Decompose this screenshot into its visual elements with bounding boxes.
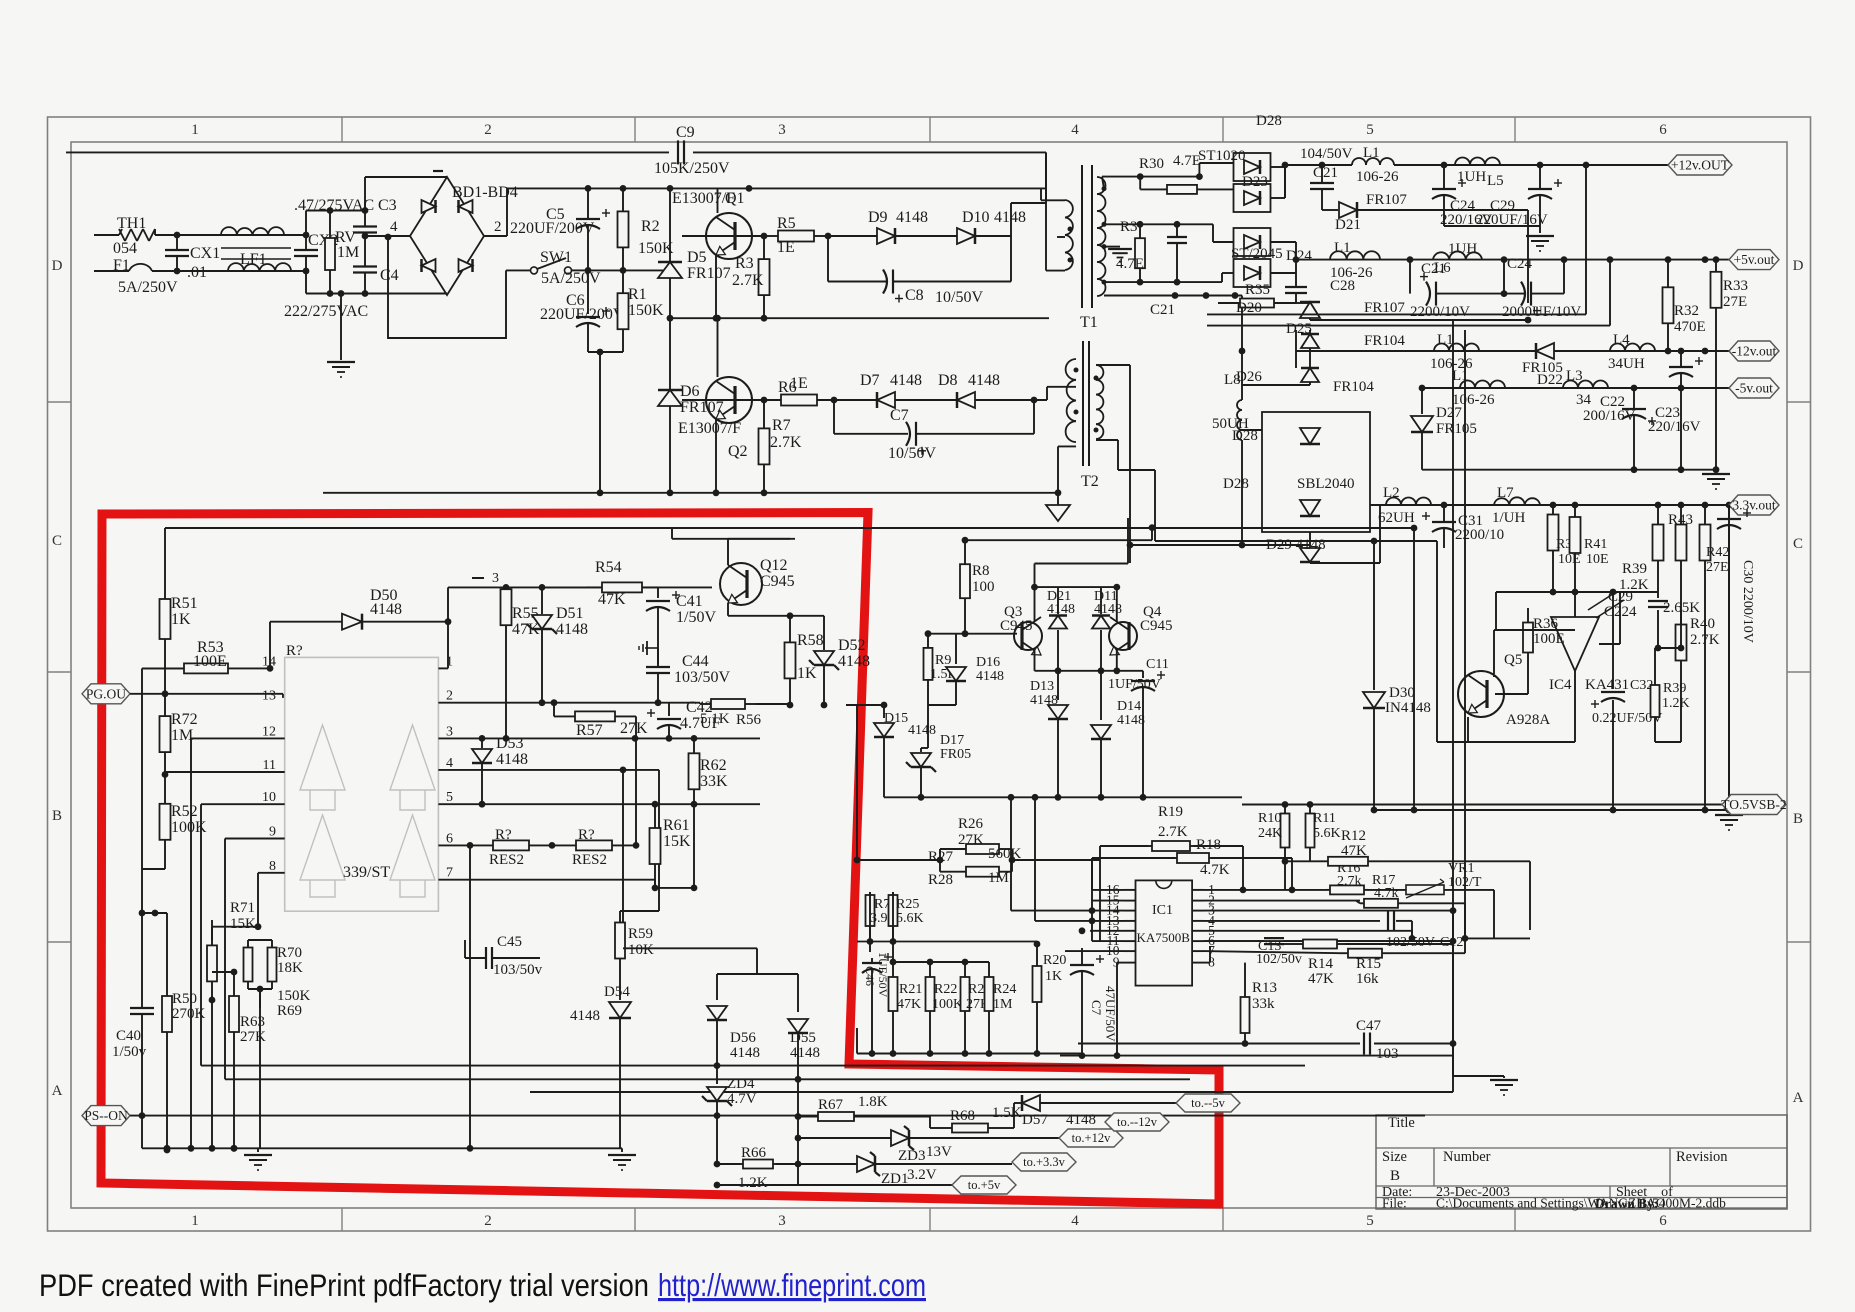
ic IC4 KA431 [1549, 589, 1629, 742]
svg-text:4148: 4148 [1030, 693, 1058, 708]
transistor Q1 [672, 188, 752, 318]
capacitor C42 [647, 699, 721, 738]
svg-text:D25: D25 [1286, 321, 1312, 337]
svg-text:4148: 4148 [370, 601, 402, 618]
svg-text:L3: L3 [1566, 368, 1583, 384]
svg-text:Q2: Q2 [728, 443, 748, 460]
resistor R11 5.6K [1306, 801, 1341, 861]
wire pin7 row [438, 804, 697, 891]
wire T1 sec tap B [1104, 221, 1233, 242]
capacitor C44 [646, 648, 730, 706]
wire sec feed lines [1207, 165, 1610, 326]
svg-text:R?: R? [286, 643, 303, 659]
diode D11 4148 [1092, 589, 1122, 671]
inductor L1d [1452, 368, 1505, 408]
wire Q2 base [682, 397, 767, 404]
svg-text:3.2V: 3.2V [907, 1167, 937, 1183]
diode D27 FR105 [1411, 388, 1477, 470]
svg-text:R3: R3 [735, 255, 754, 272]
diode D14 4148 [1091, 671, 1145, 798]
transistor Q2 [678, 318, 752, 496]
svg-text:C8: C8 [905, 287, 924, 304]
svg-text:222/275VAC: 222/275VAC [284, 303, 368, 320]
svg-text:C7: C7 [890, 407, 909, 424]
svg-text:R50: R50 [172, 991, 197, 1007]
flag to.+3.3v [1012, 1153, 1076, 1171]
resistor R51 1K [160, 528, 198, 694]
diode D25 FR104 [1239, 321, 1406, 354]
resistor R10 24K [1258, 801, 1290, 890]
capacitor C24b [1501, 256, 1582, 320]
svg-text:A928A: A928A [1506, 712, 1550, 728]
svg-text:100K: 100K [932, 997, 963, 1012]
wire bridge node2 [484, 188, 507, 236]
svg-text:1UH: 1UH [1448, 241, 1477, 257]
resistor R31 4.7E [1116, 219, 1145, 282]
svg-text:R9: R9 [935, 653, 951, 668]
rectifier SBL2040 [1223, 412, 1370, 532]
transistor Q5 A928A [1458, 652, 1550, 728]
title block [1376, 1115, 1787, 1211]
resistor R61 15K [650, 804, 692, 891]
resistor R7 [759, 400, 803, 496]
capacitor C6 [540, 270, 625, 355]
svg-text:R12: R12 [1341, 828, 1366, 844]
wire mid rail [588, 269, 671, 271]
svg-text:SW1: SW1 [540, 249, 572, 266]
wire AC line bottom [94, 268, 306, 275]
ic IC1 KA7500B [1106, 880, 1215, 985]
capacitor C3 [353, 211, 377, 236]
svg-text:Drawn By:: Drawn By: [1595, 1196, 1658, 1211]
svg-text:2.7k: 2.7k [1337, 874, 1362, 889]
wire 33 gnd rail2 [1371, 807, 1620, 814]
capacitor C23 [1648, 351, 1703, 473]
inductor L5 [1455, 158, 1504, 189]
resistor R24 1M [985, 962, 1017, 1054]
wire pin4 row [438, 767, 659, 941]
svg-text:47K: 47K [1341, 843, 1367, 859]
svg-text:R22: R22 [934, 982, 957, 997]
svg-text:1.2K: 1.2K [1662, 696, 1690, 711]
svg-text:D28: D28 [1223, 476, 1249, 492]
svg-text:62UH: 62UH [1378, 510, 1415, 526]
wire -5 rail [1419, 385, 1729, 392]
svg-text:C40: C40 [116, 1028, 141, 1044]
wire r2x bottom [857, 1028, 1082, 1057]
svg-text:1M: 1M [171, 727, 193, 744]
diode D15 4148 [874, 705, 936, 797]
svg-text:2: 2 [484, 122, 492, 138]
resistor R59 10K [615, 911, 659, 1000]
diode D21b 4148 [1047, 589, 1075, 671]
diode D9 [868, 209, 928, 244]
svg-text:R56: R56 [736, 712, 762, 728]
svg-text:Title: Title [1388, 1115, 1415, 1131]
switch SW1 [506, 249, 601, 287]
svg-text:R25: R25 [896, 897, 919, 912]
resistor R27 560K [928, 844, 1022, 872]
svg-text:D55: D55 [790, 1030, 816, 1046]
svg-text:1.2K: 1.2K [738, 1175, 768, 1191]
svg-text:4148: 4148 [994, 209, 1026, 226]
resistor R15b 16k [1204, 949, 1465, 987]
svg-text:C945: C945 [1000, 618, 1033, 634]
wire pin6 drop [469, 845, 471, 1148]
svg-text:4148: 4148 [1094, 602, 1122, 617]
svg-text:B: B [1793, 811, 1803, 827]
svg-text:R41: R41 [1584, 537, 1607, 552]
resistor R71 15K [207, 900, 258, 1003]
wire ps-on row [82, 1106, 1425, 1126]
svg-text:D: D [52, 258, 63, 274]
svg-text:1M: 1M [988, 870, 1009, 886]
resistor R22 100K [926, 962, 964, 1054]
svg-text:103/50v: 103/50v [493, 962, 543, 978]
svg-text:2.7K: 2.7K [732, 272, 764, 289]
wire pin5 row [1204, 931, 1412, 939]
wire mid row 797 [884, 794, 1242, 921]
svg-text:33K: 33K [700, 773, 728, 790]
primary ground rail [323, 489, 1061, 496]
wire D50 branch [269, 622, 271, 669]
resistor R8 100 [960, 537, 995, 637]
svg-text:9: 9 [269, 825, 276, 840]
svg-text:4148: 4148 [838, 653, 870, 670]
svg-text:R54: R54 [595, 559, 622, 576]
svg-text:C9: C9 [676, 124, 695, 141]
svg-text:FR05: FR05 [940, 747, 971, 762]
svg-text:TO.5VSB-2: TO.5VSB-2 [1721, 797, 1786, 812]
svg-text:TH1: TH1 [117, 215, 146, 232]
wire col 798 [797, 1079, 799, 1185]
svg-text:to.+3.3v: to.+3.3v [1023, 1155, 1066, 1169]
svg-text:10: 10 [262, 790, 276, 805]
label C30 [1740, 560, 1755, 643]
resistor R12 47K [1282, 828, 1530, 866]
svg-text:C24: C24 [1507, 256, 1533, 272]
flag +5v.out [1729, 250, 1779, 270]
wire ic1 left links [1092, 858, 1160, 890]
inductor L8 [1212, 372, 1249, 548]
svg-text:R57: R57 [576, 722, 603, 739]
svg-text:4.7E: 4.7E [1173, 153, 1201, 169]
svg-text:R10: R10 [1258, 811, 1281, 826]
thermistor TH1 [113, 215, 155, 257]
diode D56 4148 [707, 974, 760, 1069]
wire T2 row [834, 399, 877, 401]
svg-text:D15: D15 [884, 711, 908, 726]
diode D17 FR05 [906, 733, 971, 797]
svg-text:LF1: LF1 [240, 251, 267, 268]
svg-text:R1: R1 [628, 286, 647, 303]
capacitor C41 [646, 587, 716, 648]
svg-text:4148: 4148 [496, 751, 528, 768]
ground T1 ct [1104, 247, 1132, 262]
svg-text:7: 7 [446, 866, 453, 881]
svg-text:2000UF/10V: 2000UF/10V [1502, 304, 1581, 320]
resistor R5 [764, 215, 831, 256]
svg-text:.47/275VAC: .47/275VAC [294, 197, 374, 214]
diode D5 FR107 [658, 188, 731, 318]
vr VR1 102/T [1368, 861, 1494, 938]
svg-text:D53: D53 [496, 735, 524, 752]
inductor L1b [1330, 240, 1380, 281]
sec gnd rail [1422, 469, 1716, 471]
svg-text:10/50V: 10/50V [888, 445, 936, 462]
svg-text:Q1: Q1 [725, 190, 745, 207]
inductor L4 [1608, 332, 1655, 372]
wire +5 rail [1407, 256, 1729, 263]
wire C6 gnd drop [597, 352, 604, 496]
capacitor C24a [1432, 165, 1540, 228]
svg-text:C28: C28 [1330, 278, 1355, 294]
label 222/275VAC [284, 303, 368, 320]
ground small C41 [639, 641, 658, 655]
resistor R40 2.7K [1676, 610, 1720, 742]
resistor R25 5.6K [889, 892, 924, 962]
wire pin2 link [1402, 903, 1465, 938]
svg-text:L5: L5 [1487, 173, 1504, 189]
resistor R75 3.9K [866, 892, 898, 952]
svg-text:RES2: RES2 [572, 852, 607, 868]
transistor Q4 C945 [1109, 604, 1173, 655]
svg-text:470E: 470E [1674, 319, 1706, 335]
wire q12 emitter row [728, 612, 824, 619]
rectifier ST2045 [1234, 228, 1300, 287]
svg-text:4148: 4148 [556, 621, 588, 638]
resistor R39 1.2K [1619, 505, 1664, 593]
resistor R53 100E [142, 639, 273, 673]
resistor RES2 a [489, 827, 529, 868]
resistor R26 27K [958, 816, 984, 848]
label .47/275VAC [294, 197, 397, 214]
transformer T1 [1065, 165, 1107, 331]
svg-text:1E: 1E [790, 375, 808, 392]
wire to5v row [714, 1182, 952, 1189]
svg-text:1UF/50V: 1UF/50V [1108, 677, 1161, 692]
resistor R70 18K [212, 927, 303, 989]
wire doubler link [385, 234, 506, 338]
svg-text:R5: R5 [777, 215, 796, 232]
svg-text:D: D [1793, 258, 1804, 274]
wire q3q4 top net [1031, 518, 1128, 622]
wire -12 rail [1296, 348, 1729, 355]
flag PG.OUT [82, 684, 283, 704]
svg-text:R72: R72 [171, 711, 198, 728]
diode D51 4148 zener [527, 587, 588, 706]
svg-text:IC1: IC1 [1152, 903, 1173, 918]
diode D13 4148 [1030, 671, 1068, 798]
svg-text:A: A [1793, 1090, 1804, 1106]
svg-text:105K/250V: 105K/250V [654, 160, 730, 177]
capacitor C46 [862, 952, 892, 1054]
resistor R66 1.2K [714, 1145, 857, 1191]
svg-text:C: C [1793, 536, 1803, 552]
diode D26 FR104 [1236, 351, 1374, 395]
wire 33 fb [1496, 580, 1658, 648]
svg-text:10K: 10K [628, 942, 654, 958]
wire D28 top [1242, 429, 1262, 431]
svg-text:R2: R2 [641, 218, 660, 235]
diode D20 FR107 [1236, 300, 1531, 323]
resistor R3 [732, 236, 770, 318]
svg-text:Revision: Revision [1676, 1149, 1728, 1165]
wire vr rail right [1462, 861, 1530, 942]
label ST1020 [1198, 148, 1268, 190]
wire pin1 row [1204, 887, 1326, 894]
svg-text:4.7k: 4.7k [1374, 886, 1399, 901]
resistor R36 100E [1495, 608, 1565, 694]
svg-text:Number: Number [1443, 1149, 1491, 1165]
svg-text:R3: R3 [1120, 219, 1138, 235]
resistor R67 1.8K [795, 1094, 930, 1128]
capacitor C12 [1204, 911, 1463, 950]
resistor R33 [1711, 260, 1749, 474]
svg-text:R19: R19 [1158, 804, 1183, 820]
svg-text:to.+12v: to.+12v [1072, 1131, 1111, 1145]
svg-text:103: 103 [1376, 1046, 1399, 1062]
resistor R42 27E [1700, 505, 1730, 810]
svg-text:47K: 47K [1308, 971, 1334, 987]
inductor LF1 [221, 227, 291, 271]
wire r8 top row [965, 524, 1155, 540]
svg-text:2: 2 [494, 219, 502, 235]
svg-text:L1: L1 [1452, 368, 1469, 384]
svg-text:150K: 150K [277, 988, 311, 1004]
wire r2x top [893, 959, 989, 966]
svg-text:4148: 4148 [908, 723, 936, 738]
capacitor C28 [1285, 273, 1355, 303]
svg-text:Size: Size [1382, 1149, 1407, 1165]
wire fb node [1655, 610, 1685, 651]
wire d15 col up [846, 702, 887, 709]
svg-text:R20: R20 [1043, 953, 1066, 968]
svg-text:F1: F1 [113, 257, 130, 274]
svg-text:-5v.out: -5v.out [1735, 381, 1773, 396]
svg-text:.01: .01 [187, 264, 207, 281]
svg-text:R51: R51 [171, 595, 198, 612]
resistor R62 33K [689, 738, 729, 804]
svg-text:D6: D6 [680, 383, 700, 400]
transistor Q12 C945 [720, 539, 795, 616]
svg-text:D5: D5 [687, 249, 707, 266]
resistor RES2 b [572, 827, 612, 868]
svg-text:1: 1 [191, 1213, 199, 1229]
resistor R63 27K [212, 969, 266, 1152]
svg-text:D14: D14 [1117, 699, 1141, 714]
svg-text:R68: R68 [950, 1108, 975, 1124]
svg-text:D8: D8 [938, 372, 958, 389]
svg-text:5: 5 [446, 790, 453, 805]
svg-text:L6: L6 [1434, 260, 1451, 276]
svg-text:1/50V: 1/50V [676, 609, 716, 626]
svg-text:R15: R15 [1356, 956, 1381, 972]
wire c47 row [1078, 1040, 1456, 1047]
wire ic1 left bus [1065, 858, 1124, 1059]
wire T1 pri links [1041, 152, 1065, 270]
transistor Q3 C945 [1000, 604, 1042, 655]
diode D7 [860, 372, 922, 408]
svg-text:to.--12v: to.--12v [1117, 1115, 1158, 1129]
svg-text:24K: 24K [1258, 826, 1282, 841]
svg-text:13: 13 [262, 689, 276, 704]
svg-text:C945: C945 [760, 573, 795, 590]
wire +12 rail [1394, 162, 1672, 169]
diode D10 [957, 209, 1026, 244]
capacitor C21a [1300, 146, 1353, 210]
resistor R72 1M [160, 694, 198, 778]
svg-text:L1: L1 [1437, 332, 1454, 348]
svg-text:R32: R32 [1674, 303, 1699, 319]
svg-text:33k: 33k [1252, 996, 1275, 1012]
diode D16 4148 [928, 634, 1004, 705]
svg-text:5A/250V: 5A/250V [118, 279, 178, 296]
svg-text:150K: 150K [628, 302, 664, 319]
resistor R1 [618, 270, 665, 352]
resistor R50 270K [142, 910, 206, 1154]
svg-text:FR107: FR107 [680, 399, 724, 416]
diode D57 4148 [1014, 1095, 1176, 1128]
diode ZD3 13V [795, 1126, 1059, 1164]
svg-text:R52: R52 [171, 803, 198, 820]
wire T1 sec tap D [1104, 273, 1233, 286]
resistor R13 33k [1241, 963, 1278, 1044]
fuse F1 [113, 257, 178, 296]
wire +12 node [1285, 162, 1352, 198]
inductor L1c [1430, 332, 1479, 372]
svg-text:B: B [1390, 1168, 1400, 1184]
svg-text:C4: C4 [380, 267, 399, 284]
svg-text:2200/10: 2200/10 [1455, 527, 1504, 543]
svg-text:FR104: FR104 [1333, 379, 1374, 395]
wire q3 base row [925, 630, 1017, 637]
diode D29 4148 [1130, 505, 1380, 563]
resistor R55 47K [501, 587, 541, 741]
label ST2045 [1231, 246, 1312, 264]
resistor R52 100K [142, 775, 207, 914]
svg-text:34: 34 [1576, 392, 1592, 408]
resistor R16 2.7k [1326, 861, 1368, 894]
wire D10 out [975, 203, 1046, 236]
svg-text:27E: 27E [1706, 560, 1729, 575]
svg-text:R39: R39 [1622, 561, 1647, 577]
wire pin3 row [1204, 907, 1456, 914]
flag TO.5VSB-2 [1242, 795, 1787, 815]
svg-text:IN4148: IN4148 [1385, 700, 1431, 716]
wire HV to T1 [1045, 152, 1047, 203]
svg-text:100: 100 [972, 579, 995, 595]
footer text [39, 1267, 926, 1303]
flag to.--12v [1105, 1113, 1169, 1131]
svg-text:C45: C45 [497, 934, 522, 950]
wire q5 links [1494, 630, 1575, 677]
svg-text:5: 5 [1366, 122, 1374, 138]
svg-text:220UF/200V: 220UF/200V [540, 306, 625, 323]
svg-text:C11: C11 [1146, 657, 1169, 672]
svg-text:L4: L4 [1613, 332, 1630, 348]
red highlight outline [101, 513, 1219, 1205]
svg-text:16k: 16k [1356, 971, 1379, 987]
svg-text:4148: 4148 [968, 372, 1000, 389]
resistor R20 1K [1033, 941, 1067, 1054]
svg-text:R24: R24 [993, 982, 1016, 997]
diode D52 4148 zener [809, 616, 870, 709]
svg-text:2: 2 [446, 689, 453, 704]
resistor R58 1K [785, 616, 824, 709]
svg-text:R35: R35 [1245, 282, 1270, 298]
svg-text:R39: R39 [1663, 681, 1686, 696]
